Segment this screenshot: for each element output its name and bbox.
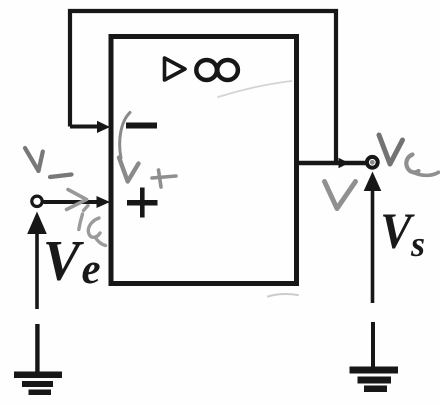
ground right xyxy=(350,367,399,393)
pencil check V+ near plus input xyxy=(119,158,139,182)
pencil plus sign near plus input xyxy=(152,170,176,187)
wire output xyxy=(299,161,366,165)
pencil curved arrow from inverting input xyxy=(120,113,130,159)
svg-text:V: V xyxy=(43,230,85,293)
label Vs xyxy=(380,202,425,264)
non-inverting input pin marker + xyxy=(127,188,158,218)
node E input terminal circle xyxy=(32,196,42,206)
op-amp U1 ideal amplifier box xyxy=(111,37,297,284)
wire feedback into inverting input xyxy=(70,125,98,129)
inverting input pin marker - xyxy=(126,123,157,129)
pencil note ie current label xyxy=(79,206,106,246)
pencil note Vc at node S xyxy=(379,135,439,175)
svg-text:e: e xyxy=(82,246,101,293)
svg-text:s: s xyxy=(410,224,425,264)
arrowhead on output wire xyxy=(339,158,350,168)
op-amp triangle symbol xyxy=(165,58,186,80)
source arrow Ve arrowhead xyxy=(27,212,47,235)
arrowhead at inverting input xyxy=(97,121,110,133)
wire stem to left ground xyxy=(35,324,39,372)
label Ve xyxy=(43,230,101,293)
pencil arrow on input wire xyxy=(67,190,87,210)
wire feedback loop (left riser, top run, right drop) xyxy=(70,11,336,163)
pencil faint arc below box xyxy=(268,294,298,296)
wire input node to non-inverting input xyxy=(44,200,98,204)
pencil note V- at node E xyxy=(25,148,72,177)
wire stem to right ground xyxy=(371,322,375,368)
source arrow Vs arrowhead xyxy=(364,172,382,192)
source arrow Ve shaft xyxy=(35,233,39,309)
arrowhead at non-inverting input xyxy=(97,196,111,208)
op-amp infinite gain symbol xyxy=(196,60,238,80)
ground left xyxy=(14,372,62,396)
source arrow Vs shaft xyxy=(371,190,375,303)
node S output terminal circle xyxy=(367,157,378,168)
pencil faint arc inside box xyxy=(218,81,292,97)
pencil check V below output wire xyxy=(325,182,356,209)
